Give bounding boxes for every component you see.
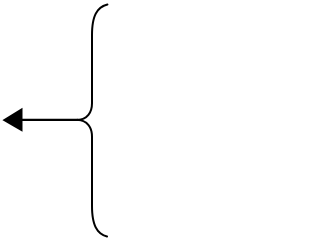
wire (arrow shaft) bbox=[21, 119, 78, 121]
brace-arrow diagram bbox=[0, 0, 111, 241]
curly brace bbox=[77, 5, 108, 237]
arrowhead bbox=[2, 108, 22, 132]
